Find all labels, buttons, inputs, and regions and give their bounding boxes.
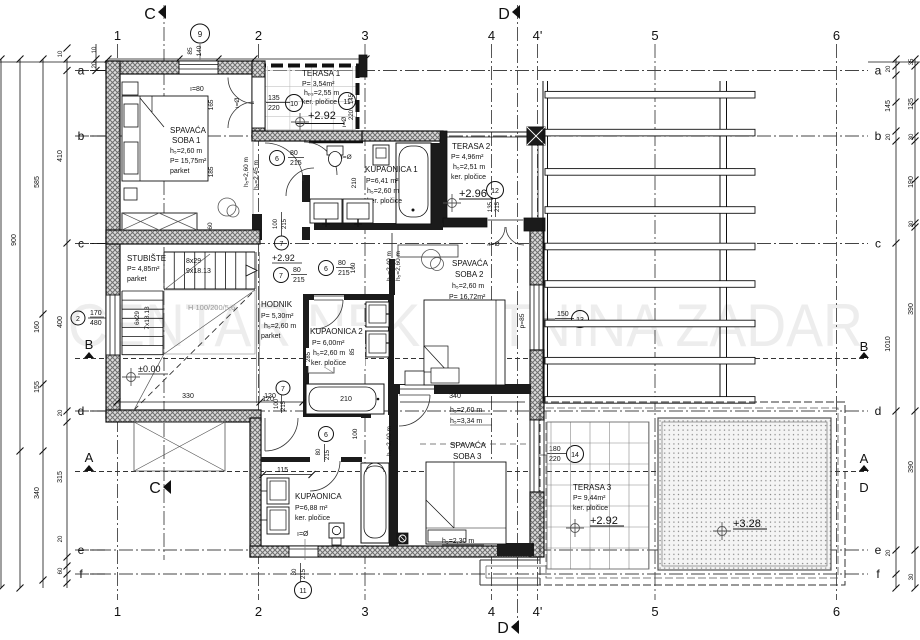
wardrobe room 1 with X [122,213,197,230]
svg-text:P= 9,44m²: P= 9,44m² [573,495,606,502]
cabinet bathroom2 floor [308,357,334,373]
svg-text:60: 60 [207,222,214,230]
svg-text:h₅=2,60 m: h₅=2,60 m [313,350,345,357]
svg-text:ı=Ø: ı=Ø [297,531,309,538]
svg-text:P= 6,00m²: P= 6,00m² [312,340,345,347]
svg-text:20: 20 [886,549,892,556]
svg-text:410: 410 [57,150,64,162]
grid column line 6 [836,44,838,600]
svg-text:215: 215 [281,400,287,411]
svg-text:6x29: 6x29 [134,311,141,325]
svg-text:190: 190 [908,176,915,188]
boiler circles room 2 [422,250,441,269]
svg-text:6: 6 [275,156,279,163]
exterior wall top (room 1) [106,61,254,74]
grid column line 5 [654,44,656,600]
svg-text:6: 6 [324,432,328,439]
ceiling break dashed line room3 [420,443,528,445]
svg-text:85: 85 [350,348,356,355]
grid column line 4' [537,44,539,600]
door tag circle 11 bottom 80/215 [295,582,312,599]
svg-text:P=6,41 m²: P=6,41 m² [366,178,399,185]
terrace 1 bottom wall / corridor top [252,131,364,141]
svg-text:h₅=2,51 m: h₅=2,51 m [453,164,485,171]
thick bottom edge of corridor top wall [309,141,363,144]
bed room 2 [424,300,505,385]
lower roof outline with X [134,422,225,471]
section line C-C vertical [163,5,165,560]
svg-text:185: 185 [208,166,215,177]
svg-text:80: 80 [293,267,301,274]
svg-text:STUBIŠTE: STUBIŠTE [127,254,166,263]
terrace 2 right edge double line [531,137,533,218]
svg-text:215: 215 [338,270,350,277]
right dimension chain lines [895,59,897,588]
small top-left dimension ticks [95,44,97,71]
svg-text:h₅=2,60 m: h₅=2,60 m [243,157,250,187]
section line A-A horizontal [75,471,868,473]
svg-text:115: 115 [277,467,288,474]
exterior wall left (bathroom 3) [250,418,261,557]
svg-text:140: 140 [196,45,203,56]
svg-text:10: 10 [92,46,98,53]
svg-text:h₅=2,60 m: h₅=2,60 m [395,251,402,281]
svg-text:35: 35 [909,58,915,65]
grid column line 3 [364,44,366,600]
door tag circle 11 145/220 terrace1 [339,93,356,110]
svg-text:220: 220 [268,105,280,112]
svg-text:85: 85 [187,47,194,55]
window 150/140 right wall room 2 [530,285,544,350]
section line D-D vertical [517,5,519,632]
svg-text:3: 3 [361,604,368,619]
svg-text:b: b [78,129,85,143]
staircase diagonal thin lines [164,290,255,354]
svg-text:390: 390 [908,303,915,315]
terrace 1 right wall top stub [359,55,367,77]
svg-text:220: 220 [349,109,355,120]
stair landing outline [164,290,255,354]
corridor wall stub lower [302,227,310,240]
svg-text:C: C [149,480,161,497]
grid row line b [75,135,868,137]
svg-text:h₅=2,60 m: h₅=2,60 m [170,148,202,155]
svg-text:6: 6 [833,604,840,619]
svg-text:C: C [144,6,156,23]
room label KUPAONICA 2 [310,326,365,367]
svg-text:20: 20 [886,133,892,140]
svg-text:160: 160 [34,321,41,333]
svg-text:11: 11 [299,588,306,595]
pergola beams [545,91,755,98]
nightstand room 2 [405,371,424,385]
wall corridor / rooms (y223) [314,223,443,230]
svg-text:155: 155 [34,381,41,393]
grid row line d [75,410,868,412]
svg-text:parket: parket [170,168,190,175]
svg-text:20: 20 [58,409,64,416]
svg-text:585: 585 [34,176,41,188]
svg-text:30: 30 [909,220,915,227]
exterior wall bottom [250,546,540,557]
svg-text:3: 3 [361,28,368,43]
twin basins bathroom 1 [310,199,342,223]
svg-text:c: c [875,237,881,251]
svg-text:120: 120 [262,396,274,403]
svg-text:12: 12 [491,188,499,195]
svg-text:4: 4 [488,28,495,43]
staircase treads upper flight [163,252,165,289]
svg-text:145: 145 [349,93,355,104]
right wall segment above window [530,219,544,285]
svg-text:A: A [85,450,94,465]
floor drain square [397,533,408,544]
terrace 2 corner column with X [527,127,545,145]
terrace door 180/220 right wall room 3 [530,420,544,492]
svg-text:215: 215 [282,218,288,229]
svg-text:D: D [498,6,510,23]
svg-text:80: 80 [316,448,322,455]
stair direction arrow [246,265,257,276]
svg-text:ı=80: ı=80 [190,86,204,93]
svg-text:+2.96: +2.96 [459,188,487,200]
svg-text:170: 170 [90,310,102,317]
svg-text:340: 340 [34,487,41,499]
window 85/140 in top wall [179,61,218,74]
door 135/220 room1-terrace1 opening [252,77,265,128]
bed room 1 [122,96,208,181]
top dimension line above outer wall [108,58,366,60]
grid row line a [75,70,868,72]
svg-text:100: 100 [352,428,359,439]
door arc hallway-bathroom2 [314,300,343,329]
door gap bathroom2 top wall [314,295,344,300]
bathroom 1 right wall [431,143,442,230]
svg-text:400: 400 [57,316,64,328]
boiler circles room 1 [218,198,236,216]
svg-text:KUPAONICA 1: KUPAONICA 1 [365,165,418,174]
door tag circle 6 80/215 corridor [270,151,285,166]
wall between room 1 and terrace 1 [252,61,265,139]
sink bathroom 1 [373,145,389,165]
wall length label 285 [306,348,315,366]
svg-text:5: 5 [651,28,658,43]
svg-text:210: 210 [340,396,352,403]
svg-text:330: 330 [182,393,194,400]
pergola right post [719,81,721,399]
right wall bottom pier (room 3) [530,492,544,557]
svg-text:P= 4,85m²: P= 4,85m² [127,266,160,273]
right wall pier between windows [530,350,544,420]
svg-text:20: 20 [886,65,892,72]
svg-text:parket: parket [127,276,147,283]
door arc into bathroom 1 [304,142,337,175]
svg-text:H 100/200/5,6: H 100/200/5,6 [188,303,235,312]
grid row line c [75,243,868,245]
door arc bathroom 3 [310,461,340,491]
svg-text:TERASA 3: TERASA 3 [573,483,612,492]
svg-text:e: e [78,543,85,557]
nightstand room 1 bottom [124,188,137,200]
room1/corridor open boundary thin line [252,141,254,214]
svg-text:8x29: 8x29 [186,258,201,265]
svg-text:80: 80 [292,568,298,575]
svg-text:hₚ₃=2,55 m: hₚ₃=2,55 m [304,90,339,97]
svg-text:ı=Ø: ı=Ø [341,117,348,128]
hall tag circle 7 120/215 lower [276,381,290,395]
svg-text:h₅=3,34 m: h₅=3,34 m [450,418,482,425]
svg-text:6: 6 [833,28,840,43]
double door arcs room1-terrace1 [228,78,254,104]
svg-text:e: e [875,543,882,557]
svg-text:c: c [78,237,84,251]
svg-text:9: 9 [198,30,203,39]
svg-text:14: 14 [571,452,579,459]
bathtub bathroom 1 [396,143,431,224]
svg-text:HODNIK: HODNIK [261,300,293,309]
svg-text:KUPAONICA: KUPAONICA [295,492,342,501]
svg-text:2: 2 [255,28,262,43]
door 80/215 opening in bottom wall [289,546,318,557]
wall room2/room3 [393,384,531,394]
bathroom 2 bottom wall [303,411,371,417]
door arc to bathroom3 area [265,418,298,451]
svg-text:h₅=2,30 m: h₅=2,30 m [442,538,474,545]
terrace 3 raised stippled area [658,418,831,570]
svg-text:1010: 1010 [885,336,892,352]
svg-text:20: 20 [58,535,64,542]
hall door tag circle 6 80/215 centre [319,261,334,276]
svg-text:315: 315 [57,471,64,483]
svg-text:165: 165 [208,99,215,110]
svg-text:TERASA 2: TERASA 2 [452,142,491,151]
svg-text:d: d [875,404,882,418]
svg-text:A: A [860,451,869,466]
svg-text:P= 3,54m²: P= 3,54m² [302,81,335,88]
svg-text:p=85: p=85 [519,313,526,328]
bathroom 1 top exterior wall [362,131,443,141]
svg-text:ker. pločice: ker. pločice [311,360,346,367]
terrace 3 tiled floor grid [547,422,649,569]
svg-text:b: b [875,129,882,143]
svg-text:+2.92: +2.92 [272,253,295,263]
grid column line 2 [258,44,260,600]
svg-text:ı=Ø: ı=Ø [489,241,500,248]
svg-text:h₅=2,60 m: h₅=2,60 m [452,283,484,290]
svg-text:TERASA 1: TERASA 1 [302,69,341,78]
window 170/480 in staircase left wall [106,295,120,355]
bathroom 2 right wall [388,294,394,415]
door tag circle 12 135/215 [487,182,504,199]
hodnik/stair boundary double line [256,252,258,403]
exterior wall left (staircase) [106,238,120,418]
window tag circle 2 with 170/480 [71,311,85,325]
svg-text:215: 215 [301,568,307,579]
grid column line 4 [491,44,493,600]
door tag circle 10 135/220 [286,95,303,112]
hall tags: circle 7 +2.92 80/215 [275,236,289,250]
svg-text:4: 4 [488,604,495,619]
terrace 3 left arm outline [480,560,540,585]
svg-text:P= 5,30m²: P= 5,30m² [261,313,294,320]
svg-text:h₅=2,60 m: h₅=2,60 m [450,407,482,414]
room 3 left wall [389,394,398,546]
exterior wall left upper (room 1) [106,61,120,238]
svg-text:D: D [497,620,509,635]
balcony door arcs room2-terrace2 [487,227,505,245]
svg-text:7x18.13: 7x18.13 [144,306,151,330]
terrace 1 parapet top dashed [254,64,367,68]
svg-text:P=6,88 m²: P=6,88 m² [295,505,328,512]
svg-text:7: 7 [281,386,285,393]
svg-text:+2.92: +2.92 [590,515,618,527]
svg-text:ı=Ø: ı=Ø [234,98,241,109]
svg-text:a: a [78,64,85,78]
toilet WC strip [327,146,343,155]
svg-text:P= 4,96m²: P= 4,96m² [451,154,484,161]
bathtub bathroom 2 horizontal [306,384,384,414]
terrace 2 left wall [440,131,447,225]
svg-text:390: 390 [908,461,915,473]
room1/corridor wall stub bottom [252,214,262,240]
grid row line e [75,549,868,551]
svg-text:9x18.13: 9x18.13 [186,268,211,275]
closet room 2 [398,245,458,257]
svg-text:B: B [85,337,94,352]
svg-text:10: 10 [290,101,298,108]
svg-text:+3.28: +3.28 [733,518,761,530]
staircase break diagonal dashed [134,290,255,410]
svg-text:135: 135 [268,95,280,102]
svg-text:P= 15,75m²: P= 15,75m² [170,158,207,165]
room2 left wall stub [389,259,395,295]
svg-text:ker. pločice: ker. pločice [451,174,486,181]
svg-text:ker. pločice: ker. pločice [295,515,330,522]
wall room1/staircase (row c) [106,230,260,244]
dimension 340 below room2 [400,401,525,403]
svg-text:5: 5 [651,604,658,619]
terrace 2 bottom wall [443,218,487,227]
svg-text:30: 30 [909,133,915,140]
toilet bathroom 3 [329,523,344,538]
svg-text:d: d [78,404,85,418]
nightstand room 1 top [122,82,138,95]
svg-text:±0.00: ±0.00 [138,364,160,374]
svg-text:ker. pločice: ker. pločice [302,99,337,106]
twin basins bathroom 3 [267,478,289,504]
svg-text:SOBA 2: SOBA 2 [455,270,484,279]
svg-text:80: 80 [290,150,298,157]
svg-text:h₅=2,40 m: h₅=2,40 m [386,426,393,456]
terrace 2 bottom wall right step [524,218,545,231]
svg-text:100: 100 [274,398,280,409]
svg-text:80: 80 [338,260,346,267]
svg-text:SOBA 3: SOBA 3 [453,452,482,461]
svg-text:B: B [860,339,869,354]
svg-text:1: 1 [114,28,121,43]
grid column line 1 [117,44,119,600]
left dimension chain lines [0,59,2,588]
svg-text:145: 145 [885,100,892,112]
door tag circle 14 180/220 [567,446,584,463]
terrace 3 outer boundary double line [540,402,845,585]
svg-text:h₅=2,45 m: h₅=2,45 m [253,160,260,190]
svg-text:480: 480 [90,320,102,327]
svg-text:100: 100 [273,218,279,229]
svg-text:SPAVAĆA: SPAVAĆA [450,441,487,450]
svg-text:SPAVAĆA: SPAVAĆA [170,126,207,135]
terrace 1 tile grid [265,66,356,131]
pergola left post [542,81,544,403]
terrace 1 right edge dashed [356,66,360,131]
svg-text:h₅=2,60 m: h₅=2,60 m [367,188,399,195]
door tag circle 9 85/140 top [191,24,210,43]
svg-text:4': 4' [533,604,543,619]
svg-text:30: 30 [909,573,915,580]
section line B-B horizontal [75,358,868,360]
bottom-right corner wall black [497,543,534,556]
svg-text:215: 215 [325,449,331,460]
svg-text:+2.92: +2.92 [308,110,336,122]
svg-text:4': 4' [533,28,543,43]
door arc WC strip [286,168,314,196]
svg-text:ker. pločice: ker. pločice [573,505,608,512]
door arc corridor-room3 [399,395,430,426]
svg-text:2: 2 [76,316,80,323]
svg-text:1: 1 [114,604,121,619]
bathtub bathroom 3 vertical [361,463,389,543]
bathroom 2 top wall [303,294,394,300]
hallway/bathroom2 left wall [303,294,309,415]
grid row line f [75,573,868,575]
svg-text:6: 6 [324,266,328,273]
room2 entry door leaf [391,233,393,258]
svg-text:SOBA 1: SOBA 1 [172,136,201,145]
svg-text:210: 210 [351,177,358,188]
corridor wall stub upper [302,175,310,202]
bed room 3 [426,462,506,544]
svg-text:340: 340 [449,393,461,400]
bathroom 3 top wall left part [261,457,310,462]
balcony door opening room2-terrace2 [487,219,524,221]
svg-text:parket: parket [261,333,281,340]
svg-text:2: 2 [255,604,262,619]
svg-text:7: 7 [279,273,283,280]
bathroom 3 top wall right part [341,457,362,462]
terrace 2 top edge double line [447,131,545,133]
svg-text:D: D [859,480,868,495]
svg-text:900: 900 [11,234,18,246]
staircase treads left flight [122,290,163,292]
svg-text:60: 60 [58,567,64,574]
svg-text:h₅=2,60 m: h₅=2,60 m [264,323,296,330]
svg-text:150: 150 [557,311,569,318]
twin basins bathroom 2 [366,302,389,327]
svg-text:215: 215 [293,277,305,284]
svg-text:215: 215 [495,201,501,212]
svg-text:215: 215 [290,160,302,167]
tag circle 6 80/215 room3 corridor [319,427,334,442]
corridor door arc (door 6) [265,143,303,181]
door gap to room 3 [400,385,434,394]
svg-text:10: 10 [58,50,64,57]
dimension 330 under staircase [117,401,260,403]
svg-text:7: 7 [280,241,284,248]
svg-text:135: 135 [488,201,494,212]
svg-text:135: 135 [908,98,915,110]
svg-text:SPAVAĆA: SPAVAĆA [452,259,489,268]
svg-text:a: a [875,64,882,78]
